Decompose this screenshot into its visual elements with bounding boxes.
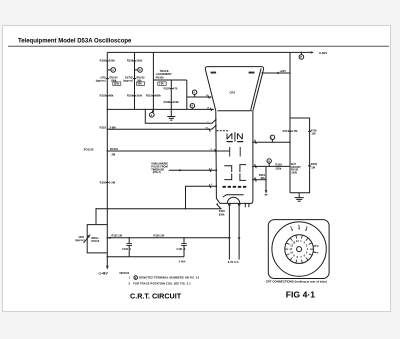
svg-text:4·1: 4·1 [303, 289, 316, 299]
capacitor C100 [128, 238, 130, 243]
base outside marks right [314, 245, 317, 248]
base pin ticks and numbers [301, 235, 304, 238]
svg-text:C.R.T. CIRCUIT: C.R.T. CIRCUIT [130, 292, 182, 301]
svg-text:R108: R108 [164, 100, 171, 104]
svg-text:-1·4kV: -1·4kV [178, 260, 186, 263]
svg-text:R123: R123 [100, 126, 107, 130]
svg-text:100k: 100k [109, 58, 115, 62]
svg-text:100k: 100k [114, 83, 120, 86]
svg-text:820k: 820k [219, 212, 225, 216]
terminal b [135, 69, 138, 71]
CRT heater pin dots [229, 204, 231, 206]
terminal f [271, 140, 273, 143]
base outside marks top [291, 228, 292, 231]
wire wiper riser [95, 209, 97, 225]
CRT centre shield electrode [234, 132, 236, 141]
node EHT output arrow [311, 51, 314, 53]
svg-text:4·7M: 4·7M [291, 129, 298, 133]
svg-text:CR1: CR1 [230, 91, 236, 95]
capacitor C101 [183, 238, 185, 243]
svg-text:R110: R110 [146, 94, 153, 98]
svg-text:470: 470 [173, 86, 178, 90]
svg-text:C100 ·1: C100 ·1 [122, 247, 132, 251]
svg-text:FOCUS: FOCUS [84, 148, 94, 152]
wire mid rail to tube [107, 108, 213, 110]
svg-text:RV106: RV106 [156, 75, 165, 79]
wire V1 main -1.4kV rail [106, 52, 108, 266]
svg-text:680k: 680k [155, 94, 161, 98]
CRT V100 envelope flare [205, 67, 263, 111]
wire EHT bleeder rail [289, 52, 291, 192]
CRT y-plate left upper [224, 166, 231, 172]
wire unblanking input [169, 169, 217, 171]
svg-text:68k: 68k [109, 94, 114, 98]
CRT coating mark left [211, 72, 217, 74]
CRT connections box [268, 220, 329, 279]
svg-text:f: f [271, 135, 272, 139]
pin 9 tick [255, 140, 257, 144]
pin 14 tick [209, 128, 211, 131]
terminal P on bus [300, 52, 302, 54]
terminal e [152, 109, 153, 112]
svg-text:500k: 500k [292, 172, 298, 175]
CRT y-plate left lower [224, 173, 231, 179]
svg-text:3·3kV: 3·3kV [319, 51, 328, 55]
svg-text:(FIG 2): (FIG 2) [153, 171, 161, 174]
CRT y-plate right lower [240, 173, 246, 180]
svg-text:50k: 50k [138, 83, 143, 86]
pin 3 tick [209, 184, 211, 188]
junction ticks left chain [106, 60, 109, 62]
CRT neck left wall [216, 111, 220, 204]
svg-text:ALIGNMENT: ALIGNMENT [156, 72, 172, 76]
CRT flare bottom [218, 110, 253, 112]
svg-text:-1300: -1300 [78, 236, 85, 239]
terminal d [191, 108, 193, 110]
svg-text:R126 1M: R126 1M [154, 234, 164, 238]
svg-text:R107: R107 [164, 86, 171, 90]
svg-text:FOR TRACE ROTATION COIL SEE FI: FOR TRACE ROTATION COIL SEE FIG. 5.1 [133, 282, 191, 286]
ground under EHT box [298, 193, 300, 198]
svg-text:RV100: RV100 [92, 239, 100, 243]
base key circle [297, 247, 302, 252]
terminal a [107, 69, 111, 71]
wire heater leg 1 [228, 206, 230, 260]
svg-text:150k: 150k [173, 100, 179, 104]
EHT divider box [290, 118, 310, 193]
CRT anode dashed entry [217, 130, 230, 132]
svg-text:Telequipment Model D53A Oscill: Telequipment Model D53A Oscilloscope [18, 39, 132, 45]
CRT coating mark right [249, 72, 255, 74]
svg-text:R106: R106 [127, 58, 134, 62]
svg-text:(approx): (approx) [123, 80, 133, 83]
CRT focus electrodes [229, 147, 231, 157]
wire final anode +2kV [262, 72, 290, 74]
svg-text:100k: 100k [136, 58, 142, 62]
CRT base bottom-left pin dot [216, 203, 218, 205]
svg-text:1·5k: 1·5k [159, 83, 164, 86]
svg-text:+2kV: +2kV [280, 69, 286, 73]
title underline [8, 45, 389, 47]
terminal c [194, 94, 196, 97]
CRT cathode [223, 195, 244, 197]
base inner circle [285, 235, 314, 264]
svg-text:P: P [300, 55, 302, 59]
CRT y-plate right upper [240, 165, 246, 172]
wire HT bus [107, 51, 313, 53]
wire heater leg 2 [238, 206, 240, 260]
svg-text:R117: R117 [283, 129, 290, 133]
svg-text:DENOTES TERMINAL NUMBERS ON P.: DENOTES TERMINAL NUMBERS ON P.C. 10 [139, 276, 199, 280]
wire V5 geometry feed [186, 80, 188, 109]
wire RV106 top to R107 [153, 79, 186, 81]
svg-text:R105: R105 [100, 58, 107, 62]
wire grid feed [186, 186, 217, 209]
pin 6 tick [215, 149, 217, 153]
pin 11 tick [208, 95, 209, 98]
svg-text:R103: R103 [100, 94, 107, 98]
potentiometer RV100 BRILLIANCE loop [87, 225, 107, 253]
svg-text:R109: R109 [127, 94, 134, 98]
wire cathode rail [107, 237, 229, 239]
svg-text:220k: 220k [276, 167, 282, 171]
wire to tube pin (c line) [187, 96, 211, 98]
svg-text:3·9M: 3·9M [110, 126, 117, 130]
pin 10 tick [255, 178, 257, 182]
svg-text:CRT CONNECTIONS (looking at re: CRT CONNECTIONS (looking at rear of tube… [266, 279, 327, 283]
base outer circle [272, 222, 326, 276]
svg-text:R102: R102 [100, 180, 107, 184]
CRT heater dome [227, 197, 239, 203]
pin stubs unused [244, 203, 246, 207]
svg-text:(approx): (approx) [96, 79, 106, 82]
svg-text:1W: 1W [312, 132, 316, 136]
wire V2 astig chain [134, 52, 136, 109]
wire pin 10 stub [253, 179, 266, 181]
CRT x-plates [227, 133, 232, 139]
CRT neck right wall with base [220, 111, 253, 204]
pin 5 tick [255, 165, 257, 169]
pin 12 tick [210, 108, 211, 111]
terminal g [268, 163, 270, 166]
svg-text:R118: R118 [276, 163, 283, 167]
wire plate pin 5 to box [253, 165, 290, 167]
wire plate pin 9 to box [253, 141, 290, 143]
svg-text:6·3V A.C.: 6·3V A.C. [228, 260, 240, 264]
svg-text:(approx): (approx) [75, 240, 85, 242]
wire V4 R107 divider [170, 80, 172, 117]
svg-text:1·5M: 1·5M [109, 180, 116, 184]
CRT grid bar [223, 186, 247, 188]
resistor R119 drop [265, 166, 267, 190]
CRT inner coating line right [251, 68, 261, 110]
svg-text:-1·4kV: -1·4kV [98, 272, 109, 276]
svg-text:R122 1M: R122 1M [112, 234, 122, 238]
wire grid rail [96, 205, 221, 209]
svg-text:NOTES: NOTES [120, 271, 130, 275]
svg-text:82k: 82k [261, 176, 266, 180]
pin 2 tick [209, 169, 211, 173]
wire FOCUS line to tube [107, 150, 229, 152]
svg-text:C101 ·1: C101 ·1 [177, 247, 187, 251]
RV100 wiper arrow [84, 236, 90, 243]
wire jog to plate pin [145, 109, 216, 123]
ground under R108 [167, 116, 175, 118]
wire R123 grid2 line [107, 128, 212, 130]
wire cap return rail [107, 256, 184, 258]
wire V3 trace-align chain [152, 52, 154, 112]
svg-text:100k: 100k [136, 94, 142, 98]
svg-text:RV101: RV101 [110, 147, 119, 151]
svg-text:FIG: FIG [286, 289, 301, 299]
